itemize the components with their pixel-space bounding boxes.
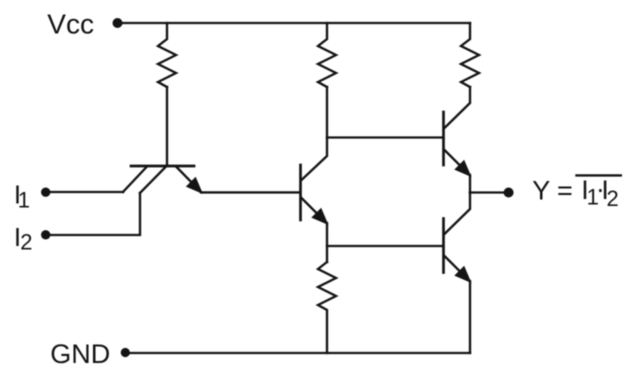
wire Q3 emitter to output node bbox=[469, 175, 471, 193]
transistor Q3 collector bbox=[445, 87, 471, 128]
wire Q2 emitter down bbox=[326, 223, 328, 262]
transistor Q1 collector with arrow bbox=[176, 167, 201, 193]
resistor R3 bbox=[318, 262, 336, 353]
transistor Q4 collector bbox=[445, 193, 471, 235]
svg-text:1: 1 bbox=[18, 187, 30, 212]
wire input I1 bbox=[46, 191, 123, 193]
transistor Q2 collector bbox=[302, 87, 328, 180]
wire Q4 emitter to GND bbox=[469, 281, 471, 353]
svg-text:=: = bbox=[557, 175, 573, 205]
transistor Q4 emitter with arrow bbox=[445, 256, 470, 281]
wire output bbox=[470, 191, 504, 193]
resistor R4 bbox=[461, 23, 479, 87]
node I1 terminal bbox=[41, 188, 50, 197]
wire Vcc rail bbox=[118, 22, 470, 24]
transistor Q3 base bar bbox=[442, 112, 445, 165]
node I2 terminal bbox=[41, 230, 50, 239]
node GND terminal bbox=[121, 348, 130, 357]
transistor Q1 emitter 1 bbox=[123, 167, 147, 193]
wire input I2 bbox=[46, 193, 140, 235]
overline of I1.I2 bbox=[575, 174, 622, 176]
transistor Q1 base bar bbox=[131, 165, 194, 168]
wire R1 to Q1 base bbox=[166, 87, 168, 165]
resistor R1 bbox=[158, 23, 176, 87]
svg-text:2: 2 bbox=[20, 230, 32, 255]
node Vcc terminal bbox=[113, 18, 123, 28]
transistor Q3 emitter with arrow bbox=[445, 150, 470, 175]
transistor Q1 emitter 2 bbox=[140, 167, 166, 194]
svg-text:GND: GND bbox=[50, 339, 110, 369]
wire GND rail bbox=[125, 352, 470, 354]
transistor Q4 base bar bbox=[442, 219, 445, 273]
wire Q2 collector to Q3 base bbox=[327, 136, 443, 138]
transistor Q2 emitter with arrow bbox=[302, 198, 327, 223]
svg-text:2: 2 bbox=[607, 186, 619, 211]
wire Q1 collector to Q2 base bbox=[201, 191, 300, 193]
svg-text:Y: Y bbox=[532, 175, 550, 205]
resistor R2 bbox=[318, 23, 336, 87]
node Y output terminal bbox=[504, 188, 514, 198]
transistor Q2 base bar bbox=[299, 165, 302, 220]
svg-text:Vcc: Vcc bbox=[47, 9, 94, 40]
wire Q2 emitter to Q4 base bbox=[327, 245, 443, 247]
